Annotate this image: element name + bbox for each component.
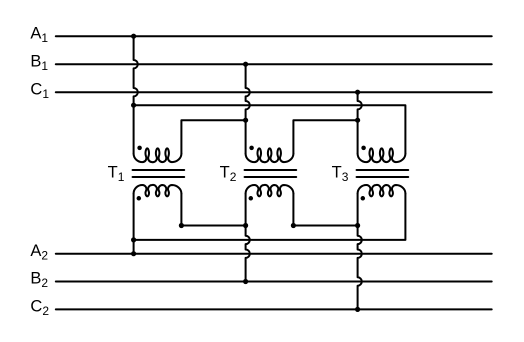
polarity dot T1 primary: [137, 146, 142, 151]
svg-text:B2: B2: [30, 270, 48, 290]
wire C1: [56, 91, 492, 93]
wire primary bus A1-node to T3 primary right: [134, 105, 406, 153]
wire T3 secondary left to C2: [358, 194, 362, 310]
polarity dot T3 secondary: [361, 196, 366, 201]
junction node B primary bus: [243, 118, 248, 123]
wire T3 secondary right to T1 secondary left bus: [134, 194, 406, 240]
wire T2 secondary left to B2: [246, 194, 250, 282]
svg-text:B1: B1: [30, 52, 48, 72]
wire T2 primary right to node C: [293, 120, 357, 153]
transformer T1 primary winding: [134, 148, 182, 162]
transformer T1 secondary winding: [134, 185, 182, 196]
transformer T3 secondary winding: [358, 185, 406, 196]
svg-text:T1: T1: [108, 163, 125, 183]
junction T2 secondary left node: [243, 223, 248, 228]
wire dropper A1 to T1 primary: [134, 36, 138, 153]
junction A2 tap: [131, 251, 136, 256]
wire dropper B1 to T2 primary: [246, 64, 250, 153]
junction B1/dropper: [243, 62, 248, 67]
wire C2: [56, 308, 492, 310]
polarity dot T1 secondary: [137, 196, 142, 201]
junction C2 tap: [355, 307, 360, 312]
transformer T2 core: [245, 170, 297, 177]
wire T1 secondary right to T2 secondary left: [181, 194, 245, 226]
wire T1 secondary left to A2: [133, 194, 135, 254]
svg-text:A2: A2: [30, 242, 48, 262]
svg-text:A1: A1: [30, 24, 48, 44]
wire A2: [56, 253, 492, 255]
transformer T2 secondary winding: [246, 185, 294, 196]
wire dropper C1 to T3 primary: [358, 92, 362, 153]
junction T2 secondary right corner: [291, 223, 296, 228]
wire T1 primary right to node B: [181, 120, 245, 153]
junction node C primary bus: [355, 118, 360, 123]
junction A1/dropper: [131, 34, 136, 39]
svg-text:T3: T3: [332, 163, 349, 183]
junction C1/dropper: [355, 90, 360, 95]
svg-text:T2: T2: [220, 163, 237, 183]
polarity dot T2 primary: [249, 146, 254, 151]
junction T3 secondary left node: [355, 223, 360, 228]
wire T2 secondary right to T3 secondary left: [293, 194, 357, 226]
polarity dot T3 primary: [361, 146, 366, 151]
junction T1 secondary right corner: [179, 223, 184, 228]
polarity dot T2 secondary: [249, 196, 254, 201]
transformer T2 primary winding: [246, 148, 294, 162]
svg-text:C2: C2: [30, 298, 49, 318]
transformer T1 core: [133, 170, 185, 177]
junction B2 tap: [243, 279, 248, 284]
transformer T3 primary winding: [358, 148, 406, 162]
wire B2: [56, 281, 492, 283]
transformer T3 core: [357, 170, 409, 177]
wire A1: [56, 35, 492, 37]
wire B1: [56, 63, 492, 65]
junction node A primary bus: [131, 103, 136, 108]
junction secondary bus/T1 left: [131, 237, 136, 242]
svg-text:C1: C1: [30, 80, 49, 100]
